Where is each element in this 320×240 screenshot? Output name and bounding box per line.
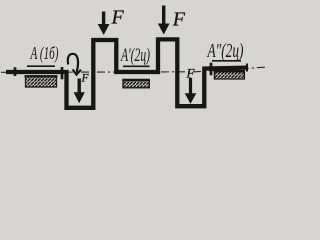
journal end tick right: [210, 63, 213, 76]
bearing support A (hatched): [25, 76, 58, 87]
force F arrow on top bar 1: [98, 12, 110, 36]
journal end tick left 1: [14, 67, 17, 76]
shaft / crank outline: [6, 39, 247, 107]
svg-text:F: F: [81, 73, 90, 85]
journal end tick right shaft end: [246, 64, 248, 72]
bearing support A'' (hatched): [214, 71, 246, 79]
journal end tick left 2: [61, 67, 64, 79]
force F arrow on top bar 2: [158, 6, 170, 35]
bearing support A' (hatched): [122, 80, 150, 88]
svg-text:A″(2ц): A″(2ц): [206, 40, 244, 62]
force F arrow in crank pin 1 (down): [74, 79, 85, 104]
svg-text:A′(2ц): A′(2ц): [120, 45, 150, 66]
svg-text:F: F: [172, 9, 186, 31]
force F arrow in crank pin 2 (down): [185, 78, 197, 104]
svg-text:A (1б): A (1б): [30, 43, 59, 64]
rotation (torque) curved arrow: [68, 54, 81, 75]
svg-text:F: F: [111, 7, 125, 29]
centerline (axis, dash-dot): [1, 67, 268, 72]
svg-text:F: F: [186, 66, 196, 81]
